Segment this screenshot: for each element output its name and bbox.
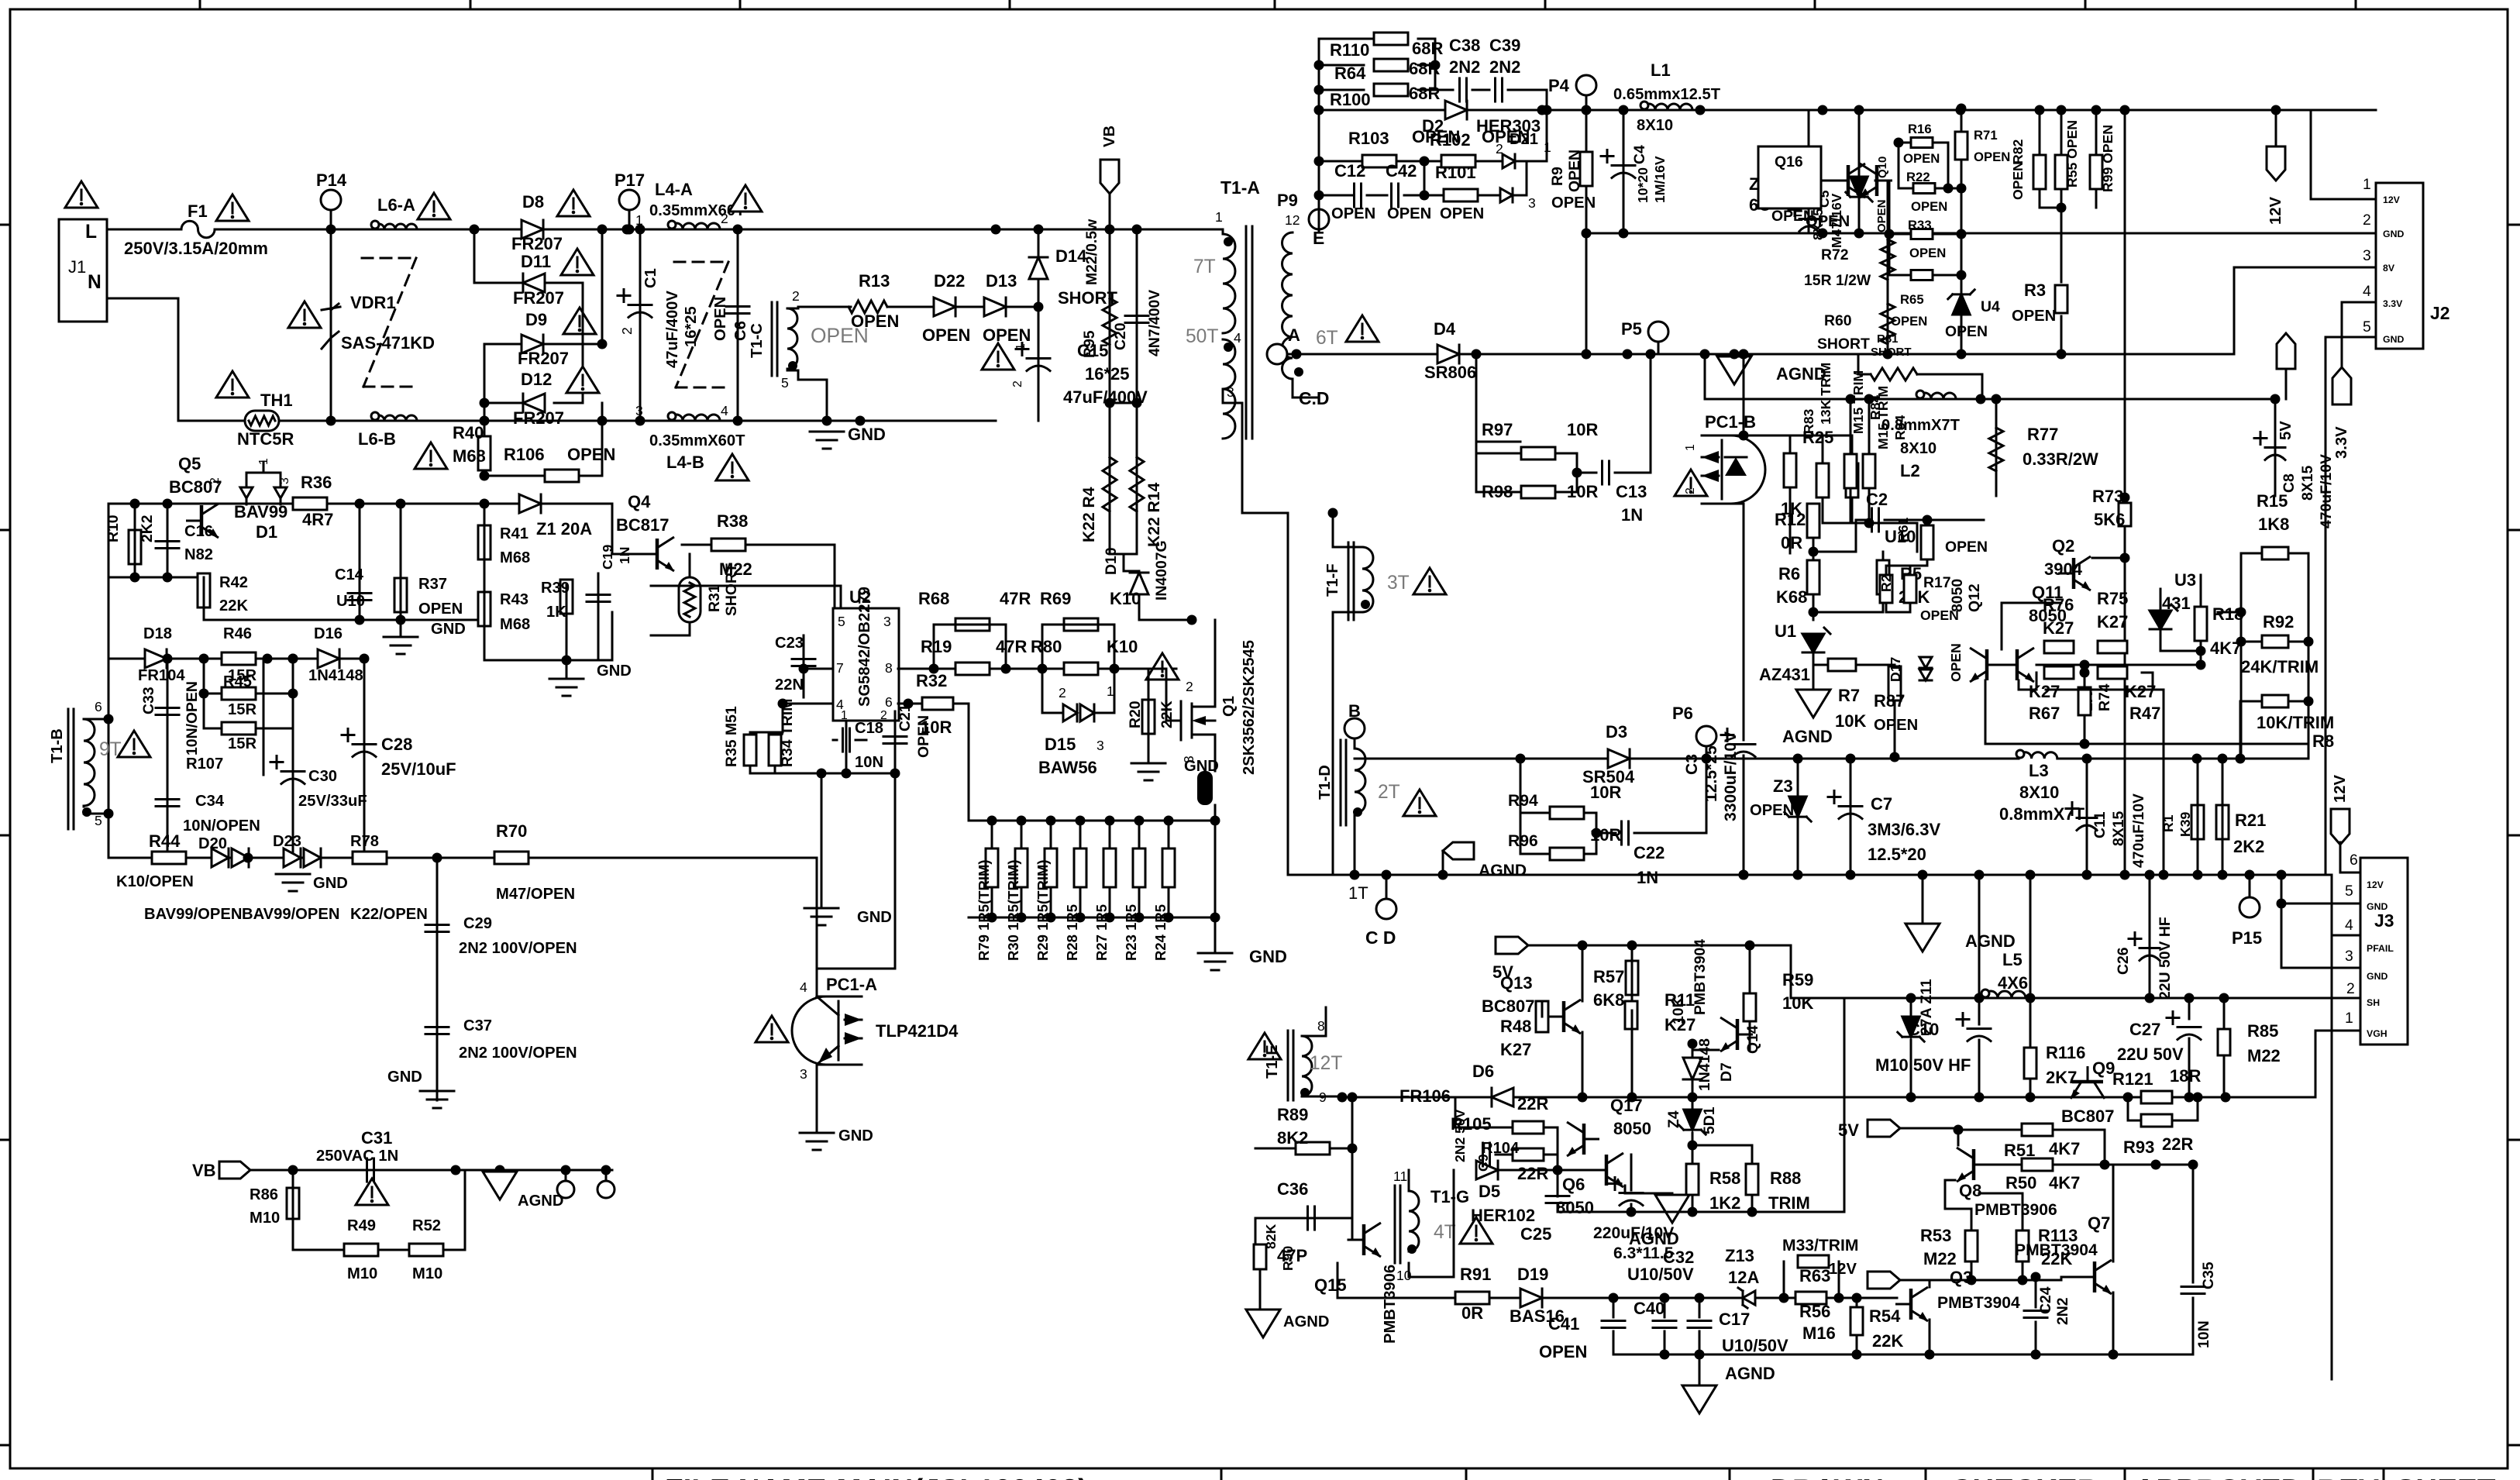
svg-text:U10: U10 (336, 593, 365, 610)
svg-text:Q14: Q14 (1744, 1025, 1761, 1054)
svg-text:C11: C11 (2091, 811, 2109, 838)
svg-text:NTC5R: NTC5R (237, 429, 294, 449)
svg-text:0R: 0R (1461, 1303, 1483, 1323)
svg-text:R83: R83 (1801, 409, 1816, 434)
svg-text:470uF/10V: 470uF/10V (2318, 454, 2335, 528)
svg-text:GND: GND (857, 909, 892, 926)
svg-text:C7: C7 (1871, 794, 1892, 814)
svg-text:R9: R9 (1549, 167, 1566, 186)
svg-text:D23: D23 (273, 833, 301, 850)
svg-text:R75: R75 (2097, 589, 2128, 608)
svg-text:SHORT: SHORT (723, 563, 740, 616)
svg-text:R95: R95 (1081, 330, 1098, 358)
svg-text:DRAWN: DRAWN (1771, 1474, 1884, 1480)
svg-text:1: 1 (1107, 683, 1114, 699)
svg-text:OPEN: OPEN (418, 601, 463, 618)
svg-text:3.3V: 3.3V (2383, 298, 2403, 309)
svg-text:0R: 0R (1781, 533, 1802, 552)
svg-text:10K/TRIM: 10K/TRIM (2257, 713, 2334, 732)
svg-text:C31: C31 (361, 1128, 392, 1148)
svg-text:K27: K27 (2097, 612, 2128, 632)
svg-text:22R: 22R (1517, 1164, 1548, 1183)
svg-text:PC1-B: PC1-B (1705, 412, 1756, 432)
svg-text:2N2: 2N2 (1489, 57, 1520, 77)
svg-text:6T: 6T (1316, 328, 1338, 349)
svg-text:2: 2 (619, 327, 635, 335)
svg-text:GND: GND (431, 621, 466, 638)
svg-text:Q1: Q1 (1220, 696, 1238, 717)
svg-text:D6: D6 (1472, 1062, 1494, 1081)
svg-text:Z1 20A: Z1 20A (536, 519, 592, 539)
svg-text:R70: R70 (496, 821, 527, 841)
svg-text:PC1-A: PC1-A (826, 975, 877, 994)
svg-text:U10/50V: U10/50V (1627, 1265, 1694, 1284)
svg-text:R20: R20 (1127, 700, 1144, 728)
svg-text:2: 2 (1684, 487, 1697, 494)
svg-text:R35 M51: R35 M51 (723, 706, 740, 767)
svg-text:AGND: AGND (518, 1193, 563, 1210)
svg-text:10N: 10N (855, 754, 883, 771)
svg-text:PMBT3904: PMBT3904 (1692, 939, 1709, 1015)
svg-text:R37: R37 (418, 576, 447, 593)
svg-text:A: A (1288, 325, 1300, 345)
svg-text:M16: M16 (1802, 1323, 1836, 1343)
svg-text:C9: C9 (1475, 1154, 1491, 1172)
svg-text:GND: GND (1249, 947, 1287, 966)
svg-text:D1: D1 (256, 522, 277, 542)
svg-text:R36: R36 (301, 473, 332, 492)
svg-text:R99 OPEN: R99 OPEN (2100, 125, 2115, 192)
svg-text:L1: L1 (1651, 60, 1671, 80)
svg-text:R76: R76 (2043, 595, 2074, 614)
svg-text:FILE NAME:MAIN(JSI-190402): FILE NAME:MAIN(JSI-190402) (665, 1474, 1088, 1480)
svg-text:F1: F1 (188, 201, 208, 221)
svg-text:R28 1R5: R28 1R5 (1064, 904, 1080, 961)
svg-text:OPEN: OPEN (922, 325, 970, 345)
svg-text:M33/TRIM: M33/TRIM (1782, 1237, 1858, 1255)
svg-text:3: 3 (2363, 247, 2371, 264)
svg-text:R2: R2 (1878, 574, 1894, 592)
svg-text:J2: J2 (2430, 303, 2449, 323)
svg-text:R82: R82 (2010, 139, 2026, 164)
svg-text:10K: 10K (1670, 996, 1687, 1024)
svg-text:R101: R101 (1435, 163, 1476, 182)
svg-text:M47/OPEN: M47/OPEN (496, 886, 575, 903)
svg-text:D12: D12 (521, 370, 552, 389)
svg-text:16*25: 16*25 (1085, 364, 1130, 384)
svg-text:PMBT3904: PMBT3904 (2015, 1241, 2098, 1259)
svg-text:OPEN: OPEN (2012, 308, 2056, 325)
svg-text:22K: 22K (1872, 1331, 1903, 1351)
svg-text:2: 2 (208, 477, 222, 484)
svg-text:OPEN: OPEN (1909, 246, 1946, 260)
svg-text:5D1: 5D1 (1701, 1107, 1718, 1134)
svg-text:R21: R21 (2235, 811, 2266, 830)
svg-text:N: N (88, 272, 102, 293)
svg-text:D13: D13 (986, 271, 1017, 291)
svg-text:12V: 12V (2267, 197, 2284, 225)
svg-text:C37: C37 (463, 1017, 492, 1034)
svg-text:BC807: BC807 (2061, 1107, 2114, 1126)
svg-text:5V: 5V (1838, 1120, 1859, 1140)
svg-text:P9: P9 (1277, 191, 1298, 210)
svg-text:BAV99: BAV99 (234, 502, 287, 521)
svg-text:Q15: Q15 (1314, 1275, 1347, 1295)
svg-text:8X10: 8X10 (1637, 117, 1673, 134)
svg-text:Q13: Q13 (1500, 973, 1533, 993)
svg-text:7: 7 (836, 660, 844, 676)
svg-text:FR104: FR104 (138, 667, 185, 684)
svg-text:R19: R19 (921, 637, 952, 656)
svg-text:R23 1R5: R23 1R5 (1123, 904, 1139, 961)
svg-text:R91: R91 (1460, 1265, 1491, 1284)
svg-text:10R: 10R (921, 718, 952, 737)
svg-text:5: 5 (838, 614, 845, 629)
svg-text:R74: R74 (2096, 683, 2113, 711)
svg-text:U10/50V: U10/50V (1722, 1336, 1788, 1355)
svg-text:R81: R81 (1877, 332, 1899, 346)
svg-text:24K/TRIM: 24K/TRIM (2241, 657, 2319, 676)
svg-text:1N: 1N (1621, 505, 1643, 525)
svg-text:10N: 10N (2195, 1320, 2212, 1348)
svg-text:SHORT: SHORT (1871, 346, 1912, 359)
svg-text:SG5842/OB2279: SG5842/OB2279 (856, 587, 873, 707)
svg-text:1: 1 (2345, 1010, 2353, 1027)
svg-text:Z4: Z4 (1665, 1110, 1682, 1128)
svg-text:L5: L5 (2002, 950, 2023, 969)
svg-text:R89: R89 (1277, 1105, 1308, 1124)
svg-text:D5: D5 (1479, 1182, 1500, 1201)
svg-text:R98: R98 (1482, 482, 1513, 501)
svg-text:OPEN: OPEN (851, 311, 899, 331)
svg-text:50T: 50T (1186, 326, 1218, 347)
svg-text:C18: C18 (855, 720, 883, 737)
svg-text:4: 4 (721, 403, 728, 418)
svg-text:8K2: 8K2 (1277, 1128, 1308, 1148)
svg-text:Q5: Q5 (178, 454, 201, 473)
svg-text:M10 50V HF: M10 50V HF (1875, 1055, 1971, 1075)
svg-text:3: 3 (883, 614, 891, 629)
svg-text:10K: 10K (1782, 993, 1813, 1013)
svg-text:AGND: AGND (1283, 1313, 1329, 1330)
svg-text:22K: 22K (219, 597, 248, 614)
svg-text:T1-C: T1-C (749, 323, 766, 358)
svg-text:K39: K39 (2177, 812, 2193, 837)
svg-text:D21: D21 (1510, 131, 1538, 148)
svg-text:R54: R54 (1869, 1306, 1901, 1326)
svg-text:SHEET: SHEET (2396, 1474, 2496, 1480)
svg-text:OPEN: OPEN (1974, 150, 2010, 164)
svg-text:REV: REV (2317, 1474, 2379, 1480)
svg-text:R121: R121 (2112, 1069, 2153, 1089)
svg-text:15R: 15R (228, 735, 256, 752)
svg-text:8X15: 8X15 (2110, 811, 2127, 846)
svg-text:68R: 68R (1412, 39, 1443, 58)
svg-text:R3: R3 (2024, 281, 2046, 300)
svg-text:15R 1/2W: 15R 1/2W (1804, 272, 1871, 289)
svg-text:AGND: AGND (1782, 727, 1833, 746)
svg-text:82K: 82K (1263, 1224, 1279, 1249)
svg-text:3: 3 (1227, 384, 1234, 400)
svg-text:M15 TRIM: M15 TRIM (1875, 386, 1891, 449)
svg-text:K10: K10 (1107, 637, 1138, 656)
svg-text:R34 TRIM: R34 TRIM (779, 699, 796, 767)
svg-text:K27: K27 (2125, 682, 2156, 701)
svg-text:P5: P5 (1621, 319, 1642, 339)
svg-text:OPEN: OPEN (1945, 539, 1988, 556)
svg-text:C1: C1 (642, 268, 659, 288)
svg-text:R38: R38 (717, 511, 748, 531)
svg-text:R6: R6 (1778, 564, 1800, 583)
svg-text:3M3/6.3V: 3M3/6.3V (1868, 820, 1940, 839)
svg-text:C14: C14 (335, 566, 364, 583)
svg-text:1K: 1K (546, 604, 566, 621)
svg-text:12: 12 (1285, 212, 1300, 228)
svg-text:C24: C24 (2037, 1286, 2054, 1314)
svg-text:0.35mmX60T: 0.35mmX60T (649, 432, 745, 449)
svg-text:8X15: 8X15 (2299, 465, 2316, 501)
svg-text:Q4: Q4 (628, 492, 651, 511)
svg-text:Q12: Q12 (1966, 583, 1983, 612)
svg-text:PMBT3904: PMBT3904 (1937, 1294, 2020, 1312)
svg-text:2N2 100V/OPEN: 2N2 100V/OPEN (459, 1045, 577, 1062)
svg-text:1T: 1T (1348, 883, 1368, 903)
svg-text:APPROVED: APPROVED (2134, 1474, 2302, 1480)
svg-text:Q17: Q17 (1610, 1096, 1643, 1115)
svg-text:5: 5 (2345, 883, 2353, 900)
svg-text:C4: C4 (1631, 145, 1648, 164)
svg-text:C22: C22 (1634, 843, 1665, 862)
svg-text:B: B (1348, 701, 1361, 721)
svg-text:SR806: SR806 (1424, 363, 1476, 382)
svg-text:BAV99/OPEN: BAV99/OPEN (144, 906, 242, 923)
svg-text:1: 1 (257, 458, 270, 465)
svg-text:VGH: VGH (2367, 1028, 2387, 1039)
svg-text:R64: R64 (1334, 64, 1366, 83)
svg-text:10N/OPEN: 10N/OPEN (184, 681, 201, 755)
svg-text:D4: D4 (1434, 319, 1456, 339)
svg-text:1N4148: 1N4148 (308, 667, 363, 684)
svg-text:R106: R106 (504, 445, 545, 464)
svg-text:R60: R60 (1824, 312, 1852, 329)
svg-text:C17: C17 (1719, 1310, 1750, 1329)
svg-text:2SK3562/2SK2545: 2SK3562/2SK2545 (1241, 640, 1258, 775)
svg-text:R8: R8 (2312, 731, 2334, 751)
svg-text:6: 6 (95, 699, 102, 714)
svg-text:OPEN: OPEN (1771, 208, 1814, 225)
svg-text:C26: C26 (2115, 947, 2132, 975)
svg-text:BC817: BC817 (616, 515, 669, 535)
svg-text:2N2 100V/OPEN: 2N2 100V/OPEN (459, 940, 577, 957)
svg-text:5: 5 (781, 375, 789, 391)
svg-text:5: 5 (95, 813, 102, 828)
svg-text:R71: R71 (1974, 128, 1998, 143)
svg-text:R84: R84 (1892, 415, 1908, 440)
svg-text:R16: R16 (1908, 122, 1932, 136)
svg-text:OPEN: OPEN (1891, 314, 1927, 329)
svg-text:2K7: 2K7 (2046, 1068, 2077, 1087)
svg-text:C29: C29 (463, 915, 492, 932)
svg-text:C25: C25 (1520, 1224, 1551, 1244)
svg-text:D11: D11 (521, 252, 551, 271)
svg-text:AGND: AGND (1725, 1364, 1775, 1383)
svg-text:K27: K27 (2043, 618, 2074, 638)
svg-text:2: 2 (1011, 380, 1024, 387)
svg-text:J3: J3 (2374, 910, 2394, 931)
svg-text:VDR1: VDR1 (350, 293, 396, 312)
svg-text:1N: 1N (617, 547, 632, 565)
svg-text:U3: U3 (2174, 570, 2196, 590)
svg-text:R61: R61 (1895, 518, 1911, 542)
svg-text:D8: D8 (522, 192, 544, 212)
svg-text:R63: R63 (1799, 1266, 1830, 1286)
svg-text:8050: 8050 (1949, 579, 1966, 612)
svg-text:P17: P17 (615, 170, 645, 190)
svg-text:1: 1 (2363, 176, 2371, 193)
svg-text:C30: C30 (308, 768, 337, 785)
svg-text:R65: R65 (1900, 292, 1924, 307)
svg-text:7T: 7T (1193, 256, 1216, 277)
svg-text:D22: D22 (934, 271, 965, 291)
svg-text:C D: C D (1365, 928, 1396, 948)
svg-text:C8: C8 (2281, 473, 2298, 493)
svg-text:470uF/10V: 470uF/10V (2130, 793, 2147, 868)
svg-text:R86: R86 (250, 1186, 278, 1203)
svg-text:22R: 22R (2162, 1134, 2193, 1154)
svg-text:C13: C13 (1616, 482, 1647, 501)
svg-text:OPEN: OPEN (1945, 323, 1988, 340)
svg-text:R94: R94 (1508, 792, 1538, 810)
svg-text:6: 6 (2350, 852, 2358, 869)
svg-text:2K2: 2K2 (2233, 837, 2264, 856)
svg-text:22U 50V HF: 22U 50V HF (2157, 917, 2174, 1000)
svg-text:C3: C3 (1683, 754, 1701, 775)
svg-text:R72: R72 (1821, 246, 1849, 263)
svg-text:4X6: 4X6 (1998, 973, 2028, 993)
svg-text:Q16: Q16 (1775, 153, 1803, 170)
svg-text:GND: GND (597, 663, 632, 680)
svg-text:R45: R45 (223, 673, 252, 690)
svg-text:Z13: Z13 (1725, 1246, 1754, 1265)
svg-text:1K2: 1K2 (1709, 1193, 1740, 1213)
svg-text:Z3: Z3 (1773, 776, 1793, 796)
svg-text:OPEN: OPEN (567, 445, 615, 464)
svg-text:1M/16V: 1M/16V (1652, 156, 1668, 203)
svg-text:0.65mmx12.5T: 0.65mmx12.5T (1613, 86, 1721, 103)
svg-text:K22/OPEN: K22/OPEN (350, 906, 428, 923)
svg-text:C6: C6 (732, 321, 749, 341)
svg-text:R85: R85 (2247, 1021, 2278, 1041)
svg-text:R46: R46 (223, 625, 252, 642)
svg-text:1N4148: 1N4148 (1696, 1038, 1713, 1091)
svg-text:431: 431 (2162, 594, 2191, 613)
svg-text:3: 3 (2345, 948, 2353, 965)
svg-text:OPEN: OPEN (1331, 205, 1375, 222)
svg-text:AZ431: AZ431 (1759, 665, 1810, 684)
svg-text:GND: GND (313, 875, 348, 892)
svg-text:BC807: BC807 (1482, 996, 1534, 1016)
svg-text:M68: M68 (500, 549, 530, 566)
svg-text:FR207: FR207 (518, 349, 569, 368)
svg-text:2: 2 (1186, 679, 1193, 694)
svg-text:47R: 47R (1000, 589, 1031, 608)
svg-text:L3: L3 (2029, 761, 2049, 780)
svg-text:D19: D19 (1517, 1265, 1548, 1284)
svg-text:GND: GND (387, 1069, 422, 1086)
svg-text:BAV99/OPEN: BAV99/OPEN (242, 906, 339, 923)
svg-text:R48: R48 (1500, 1017, 1531, 1036)
svg-text:D20: D20 (198, 835, 227, 852)
svg-text:6: 6 (885, 694, 893, 710)
svg-text:8050: 8050 (1613, 1119, 1651, 1138)
svg-text:OPEN: OPEN (1875, 199, 1888, 232)
svg-text:R1: R1 (2160, 814, 2176, 832)
svg-text:8: 8 (1317, 1018, 1325, 1034)
svg-text:K10: K10 (1110, 589, 1141, 608)
svg-text:16*25: 16*25 (683, 306, 700, 347)
svg-text:10*20: 10*20 (1635, 167, 1651, 203)
svg-text:12V: 12V (1829, 1261, 1857, 1278)
svg-text:18R: 18R (2170, 1066, 2201, 1086)
svg-text:C34: C34 (195, 793, 225, 810)
svg-text:R32: R32 (916, 671, 947, 690)
svg-text:R10: R10 (105, 515, 122, 542)
svg-text:OPEN: OPEN (2010, 161, 2026, 200)
svg-text:D16: D16 (314, 625, 343, 642)
svg-text:R17: R17 (1923, 574, 1951, 591)
svg-text:BAW56: BAW56 (1038, 758, 1097, 777)
svg-text:TLP421D4: TLP421D4 (876, 1021, 959, 1041)
svg-text:FR207: FR207 (511, 234, 563, 253)
svg-text:R102: R102 (1430, 130, 1471, 150)
svg-text:R41: R41 (500, 525, 528, 542)
svg-text:FR106: FR106 (1399, 1086, 1451, 1106)
svg-text:M68: M68 (453, 446, 486, 466)
svg-text:OPEN: OPEN (712, 297, 729, 341)
svg-text:R44: R44 (149, 831, 181, 851)
svg-text:PMBT3906: PMBT3906 (1974, 1201, 2057, 1219)
svg-text:M10: M10 (347, 1265, 377, 1282)
svg-text:K27: K27 (1500, 1040, 1531, 1059)
svg-text:K68: K68 (1776, 587, 1807, 607)
svg-text:OPEN: OPEN (1948, 643, 1964, 682)
svg-text:250V/3.15A/20mm: 250V/3.15A/20mm (124, 239, 268, 258)
svg-text:R13: R13 (859, 271, 890, 291)
svg-text:4: 4 (800, 979, 807, 995)
svg-text:10K: 10K (1835, 711, 1866, 731)
svg-text:M22: M22 (1923, 1249, 1957, 1268)
svg-text:Q3: Q3 (1950, 1268, 1972, 1287)
svg-text:D7: D7 (1718, 1062, 1735, 1082)
svg-text:R79 1R5(TRIM): R79 1R5(TRIM) (976, 859, 992, 961)
svg-text:3300uF/10V: 3300uF/10V (1722, 731, 1740, 821)
svg-text:R7: R7 (1838, 686, 1860, 705)
svg-text:2: 2 (721, 211, 728, 226)
svg-text:1: 1 (1215, 209, 1223, 225)
svg-text:R30 1R5(TRIM): R30 1R5(TRIM) (1005, 859, 1021, 961)
svg-text:R107: R107 (186, 755, 223, 773)
svg-text:M10: M10 (412, 1265, 442, 1282)
svg-text:1K8: 1K8 (2258, 515, 2289, 534)
svg-text:2K2: 2K2 (139, 515, 156, 542)
svg-text:D9: D9 (525, 310, 547, 329)
svg-text:OPEN: OPEN (1750, 802, 1794, 819)
svg-text:OPEN: OPEN (1903, 151, 1940, 166)
svg-text:R90: R90 (1280, 1246, 1296, 1271)
svg-text:68R: 68R (1409, 59, 1440, 78)
svg-text:L4-B: L4-B (666, 453, 704, 472)
svg-text:K10/OPEN: K10/OPEN (116, 873, 194, 890)
